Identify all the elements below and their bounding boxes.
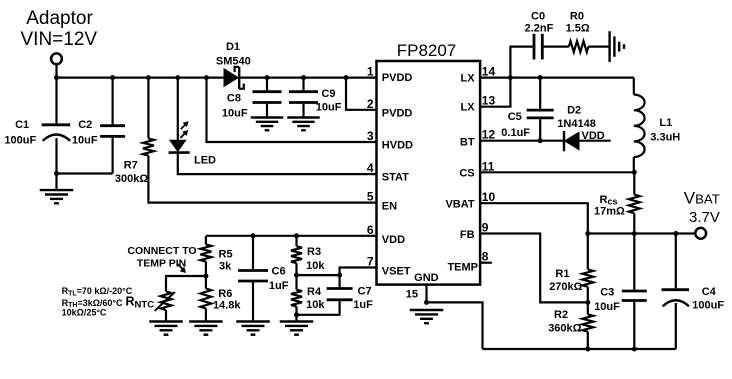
svg-text:C2: C2 <box>78 119 92 131</box>
svg-text:PVDD: PVDD <box>382 107 413 119</box>
junction LED/bus <box>175 75 180 80</box>
resistor R3 10k <box>291 236 325 290</box>
svg-text:1uF: 1uF <box>269 280 289 292</box>
svg-text:10kΩ/25°C: 10kΩ/25°C <box>62 308 107 318</box>
junction VIN/bus <box>54 75 59 80</box>
svg-text:D1: D1 <box>226 41 240 53</box>
svg-text:15: 15 <box>406 288 418 300</box>
svg-text:R0: R0 <box>570 10 584 22</box>
note: NTC resistance values <box>62 286 133 318</box>
wire C0 to R0 <box>542 45 569 47</box>
wire FB pin 9 to R1/R2 divider <box>480 234 588 303</box>
svg-text:Adaptor: Adaptor <box>26 8 93 29</box>
capacitor C8 10uF <box>222 78 282 120</box>
svg-text:1N4148: 1N4148 <box>557 118 596 130</box>
wire R5 to R6 junction <box>205 262 207 289</box>
svg-text:C1: C1 <box>15 119 29 131</box>
svg-text:3k: 3k <box>219 261 232 273</box>
svg-text:C5: C5 <box>508 111 522 123</box>
junction VSET/C7 <box>337 273 342 278</box>
junction FB/R1/R2 <box>585 300 590 305</box>
svg-text:10uF: 10uF <box>222 108 248 120</box>
ground under C8 <box>251 118 283 131</box>
svg-text:VBAT: VBAT <box>445 199 474 211</box>
svg-text:L1: L1 <box>659 117 672 129</box>
junction GND pin/ground <box>424 300 429 305</box>
svg-text:R1: R1 <box>555 268 569 280</box>
wire CS pin 11 to Rcs/L1 node <box>480 171 634 173</box>
junction R2/bottom rail <box>585 347 590 352</box>
svg-text:R5: R5 <box>219 249 233 261</box>
svg-text:FP8207: FP8207 <box>397 41 457 60</box>
svg-text:LX: LX <box>461 73 476 85</box>
wire C2 bottom to C1 ground node <box>57 172 113 174</box>
svg-text:SM540: SM540 <box>216 55 251 67</box>
junction LX/C5 <box>538 75 543 80</box>
svg-text:10uF: 10uF <box>72 134 98 146</box>
ground under R_NTC <box>149 322 183 335</box>
wire bottom ground rail <box>483 348 676 350</box>
svg-text:1uF: 1uF <box>353 299 373 311</box>
svg-text:100uF: 100uF <box>4 134 36 146</box>
capacitor C0 2.2nF (snubber) <box>525 10 554 59</box>
wire D2 anode to VDD net <box>579 140 611 142</box>
svg-text:10k: 10k <box>306 260 325 272</box>
svg-text:R2: R2 <box>554 309 568 321</box>
wire LX pin 13 up to LX line <box>480 78 510 107</box>
svg-text:R4: R4 <box>307 286 322 298</box>
capacitor C4 100uF (polarized output) <box>662 234 725 350</box>
svg-text:1: 1 <box>367 65 374 79</box>
wire GND pin to bottom rail <box>427 302 483 349</box>
wire BT pin 12 to D2 <box>480 140 564 142</box>
svg-text:100uF: 100uF <box>692 299 724 311</box>
svg-text:PVDD: PVDD <box>382 72 413 84</box>
junction CS/L1/Rcs <box>632 170 637 175</box>
ground under R4 <box>280 322 314 335</box>
resistor R1 270k <box>549 234 593 303</box>
svg-text:2.2nF: 2.2nF <box>525 23 554 35</box>
svg-text:C3: C3 <box>600 287 614 299</box>
svg-text:3.7V: 3.7V <box>689 209 720 226</box>
wire LED to STAT pin 4 <box>178 153 377 175</box>
svg-text:TEMP: TEMP <box>447 261 478 273</box>
resistor R2 360k <box>548 302 593 349</box>
svg-text:300kΩ: 300kΩ <box>115 173 148 185</box>
svg-text:GND: GND <box>414 272 439 284</box>
wire main VIN bus (left of D1) <box>57 76 225 78</box>
wire bus to HVDD pin 3 <box>207 78 377 142</box>
svg-text:R6: R6 <box>218 288 232 300</box>
junction C4/rail <box>673 231 678 236</box>
svg-text:5: 5 <box>367 190 374 204</box>
wire VBAT output rail <box>588 232 696 234</box>
svg-text:3.3uH: 3.3uH <box>650 132 680 144</box>
ground right of R0 (rotated) <box>610 31 624 62</box>
svg-text:FB: FB <box>460 229 475 241</box>
svg-text:C0: C0 <box>531 10 545 22</box>
svg-text:C8: C8 <box>227 92 241 104</box>
svg-text:C7: C7 <box>358 285 372 297</box>
wire VDD rail to pin 6 <box>206 235 377 237</box>
svg-text:3: 3 <box>367 129 374 143</box>
junction R7/bus <box>146 75 151 80</box>
resistor R6 14.8k <box>200 288 241 322</box>
junction C9/bus <box>301 75 306 80</box>
resistor Rcs 17m ohm (current sense) <box>594 172 640 233</box>
wire VBAT pin 10 to output rail <box>480 203 588 233</box>
svg-text:D2: D2 <box>567 105 581 117</box>
junction Rcs/rail <box>632 231 637 236</box>
label CONNECT TO TEMP PIN with arrow <box>127 245 196 272</box>
ground under C6 <box>236 322 270 335</box>
junction C8/bus <box>265 75 270 80</box>
svg-text:14.8k: 14.8k <box>213 300 241 312</box>
resistor R0 1.5 ohm (snubber) <box>566 10 590 52</box>
svg-text:17mΩ: 17mΩ <box>594 206 625 218</box>
junction R4/C7 ground node <box>294 312 299 317</box>
wire R7 to EN pin 5 <box>148 156 376 203</box>
pin 15 GND lead <box>425 285 427 303</box>
svg-text:C6: C6 <box>272 266 286 278</box>
LED D (status) <box>169 78 216 167</box>
ground under R6 <box>189 322 223 335</box>
capacitor C1 100uF (polarized) <box>4 78 70 191</box>
junction C1/C2 ground node <box>54 171 59 176</box>
junction R3/R4/VSET <box>294 273 299 278</box>
svg-text:VSET: VSET <box>382 266 411 278</box>
wire LX pins to snubber and L1 <box>480 76 634 78</box>
wire bus to PVDD pin 2 <box>346 78 377 110</box>
wire LX to C0 <box>510 47 532 78</box>
wire R3/R4 junction to VSET branch <box>297 274 340 276</box>
capacitor C6 1uF <box>238 236 289 322</box>
svg-text:HVDD: HVDD <box>382 140 413 152</box>
svg-text:360kΩ: 360kΩ <box>548 322 581 334</box>
svg-text:VIN=12V: VIN=12V <box>21 29 98 50</box>
svg-text:CONNECT TO: CONNECT TO <box>127 245 196 257</box>
capacitor C5 0.1uF (bootstrap) <box>501 78 553 141</box>
wire temp node to R_NTC <box>166 276 206 292</box>
junction C5/BT wire <box>538 138 543 143</box>
junction LX/snubber branch <box>508 75 513 80</box>
svg-text:270kΩ: 270kΩ <box>549 281 582 293</box>
svg-text:LX: LX <box>461 102 476 114</box>
pin 8 TEMP stub (unconnected) <box>480 262 492 264</box>
wire D1 cathode to PVDD pin 1 (bus right segment) <box>239 76 376 78</box>
svg-text:10uF: 10uF <box>316 101 342 113</box>
junction HVDD branch/bus <box>204 75 209 80</box>
svg-text:10uF: 10uF <box>594 301 620 313</box>
IC U1 FP8207 <box>377 41 481 285</box>
diode D2 1N4148 (bootstrap from VDD) <box>557 105 596 152</box>
junction R3/VDD rail <box>294 233 299 238</box>
svg-text:CS: CS <box>459 168 474 180</box>
svg-text:C4: C4 <box>702 286 717 298</box>
svg-text:VBAT: VBAT <box>684 189 720 208</box>
resistor R4 10k <box>291 286 325 321</box>
wire R0 to ground <box>588 45 609 47</box>
svg-text:TEMP PIN: TEMP PIN <box>137 257 186 269</box>
resistor R7 300k (EN pull-up) <box>115 78 154 185</box>
inductor L1 3.3uH <box>634 78 681 173</box>
svg-text:2: 2 <box>367 97 374 111</box>
junction C2/bus <box>110 75 115 80</box>
capacitor C9 10uF <box>289 78 342 118</box>
capacitor C7 1uF <box>297 285 374 315</box>
resistor R5 3k <box>200 236 232 273</box>
svg-text:LED: LED <box>194 155 216 167</box>
junction pin10/R1/rail <box>585 231 590 236</box>
junction R5/R6/NTC (temp pin node) <box>203 274 208 279</box>
wire VSET pin 7 to divider <box>340 268 377 288</box>
wire VIN terminal to bus <box>55 64 57 77</box>
ground under C1 <box>40 190 74 203</box>
junction C3/bottom rail <box>632 347 637 352</box>
capacitor C2 10uF <box>72 78 125 174</box>
node VBAT output terminal <box>684 189 720 239</box>
svg-text:EN: EN <box>382 201 397 213</box>
junction C6/VDD rail <box>251 233 256 238</box>
svg-text:C9: C9 <box>321 88 335 100</box>
ground under C9 <box>287 118 319 131</box>
svg-text:R7: R7 <box>124 160 138 172</box>
ground under GND pin 15 <box>410 310 444 323</box>
thermistor R_NTC <box>126 292 175 322</box>
svg-text:BT: BT <box>460 137 475 149</box>
svg-text:4: 4 <box>367 161 374 175</box>
svg-text:VDD: VDD <box>382 234 405 246</box>
svg-text:10k: 10k <box>306 299 325 311</box>
svg-text:R3: R3 <box>307 246 321 258</box>
node VIN: Adaptor input terminal <box>21 8 98 64</box>
svg-text:1.5Ω: 1.5Ω <box>566 23 590 35</box>
svg-text:0.1uF: 0.1uF <box>501 127 530 139</box>
svg-text:VDD: VDD <box>582 130 605 142</box>
diode D1 SM540 (Schottky) <box>216 41 251 89</box>
svg-text:STAT: STAT <box>382 172 409 184</box>
capacitor C3 10uF (output) <box>594 234 647 350</box>
junction PVDD pin2 branch/bus <box>344 75 349 80</box>
